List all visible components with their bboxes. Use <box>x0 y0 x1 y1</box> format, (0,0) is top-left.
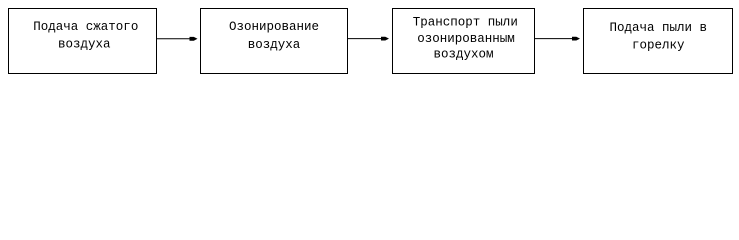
box B3 "Транспорт пыли озонированным воздухом" <box>393 9 535 74</box>
svg-text:воздухом: воздухом <box>434 48 494 62</box>
arrow A3 <box>535 37 580 41</box>
svg-text:Подача сжатого: Подача сжатого <box>33 20 138 34</box>
svg-text:озонированным: озонированным <box>417 32 515 46</box>
arrow A2 <box>348 37 389 41</box>
arrow A1 <box>157 37 198 41</box>
svg-text:воздуха: воздуха <box>248 38 301 52</box>
svg-text:Транспорт пыли: Транспорт пыли <box>413 16 518 30</box>
svg-text:воздуха: воздуха <box>58 38 111 52</box>
box B4 "Подача пыли в горелку" <box>584 9 733 74</box>
box B2 "Озонирование воздуха" <box>201 9 348 74</box>
svg-text:Подача пыли в: Подача пыли в <box>610 21 708 35</box>
svg-text:горелку: горелку <box>632 39 685 53</box>
box B1 "Подача сжатого воздуха" <box>9 9 157 74</box>
svg-text:Озонирование: Озонирование <box>229 20 319 34</box>
